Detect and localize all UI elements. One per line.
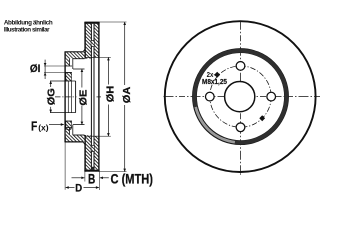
svg-text:Illustration similar: Illustration similar xyxy=(4,27,50,34)
svg-text:M8x1,25: M8x1,25 xyxy=(202,77,227,86)
svg-text:ØI: ØI xyxy=(30,63,41,75)
svg-text:ØA: ØA xyxy=(122,86,133,103)
svg-text:C (MTH): C (MTH) xyxy=(111,171,154,186)
svg-text:D: D xyxy=(75,182,82,194)
svg-text:F: F xyxy=(31,120,38,134)
svg-text:(x): (x) xyxy=(38,123,49,133)
svg-text:ØE: ØE xyxy=(79,89,90,105)
svg-text:B: B xyxy=(88,171,95,186)
svg-text:ØH: ØH xyxy=(106,86,117,103)
svg-text:ØG: ØG xyxy=(46,88,57,105)
